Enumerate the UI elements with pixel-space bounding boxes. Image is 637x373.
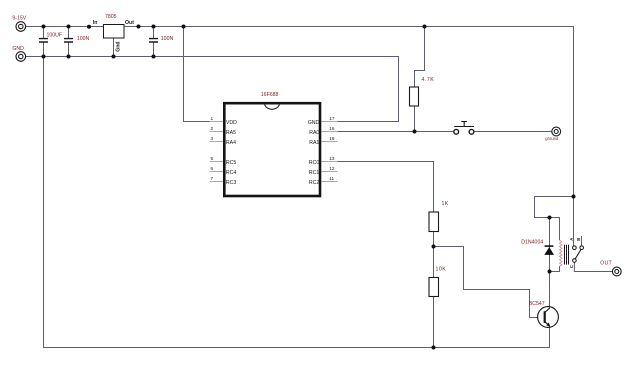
svg-text:10K: 10K	[436, 267, 447, 273]
svg-text:5: 5	[211, 156, 214, 161]
svg-text:2: 2	[211, 126, 214, 131]
svg-text:A: A	[569, 238, 574, 241]
svg-text:C: C	[569, 265, 574, 268]
svg-text:RA1: RA1	[309, 140, 319, 146]
svg-text:16F688: 16F688	[261, 92, 279, 98]
svg-text:17: 17	[329, 116, 335, 121]
svg-text:1K: 1K	[442, 201, 449, 207]
svg-text:D1N4004: D1N4004	[521, 240, 543, 246]
svg-text:15: 15	[329, 136, 335, 141]
svg-text:1: 1	[211, 116, 214, 121]
svg-text:RC3: RC3	[226, 180, 236, 186]
svg-text:16: 16	[329, 126, 335, 131]
svg-text:RC2: RC2	[309, 180, 319, 186]
svg-text:6: 6	[211, 166, 214, 171]
svg-text:4.7K: 4.7K	[422, 77, 435, 83]
svg-text:RA4: RA4	[226, 140, 236, 146]
svg-text:9-15V: 9-15V	[12, 15, 26, 21]
svg-text:BC547: BC547	[529, 301, 545, 307]
svg-text:RC5: RC5	[226, 160, 236, 166]
svg-text:GND: GND	[308, 120, 320, 126]
svg-text:100N: 100N	[77, 36, 90, 42]
svg-text:100N: 100N	[161, 36, 174, 42]
svg-text:RA5: RA5	[226, 130, 236, 136]
svg-text:7: 7	[211, 176, 214, 181]
svg-text:3: 3	[211, 136, 214, 141]
svg-text:100UF: 100UF	[47, 33, 63, 39]
svg-text:OUT: OUT	[600, 261, 612, 267]
svg-text:Out: Out	[125, 20, 134, 26]
svg-text:In: In	[93, 20, 98, 26]
svg-text:ground: ground	[545, 136, 559, 141]
svg-text:GND: GND	[12, 46, 24, 52]
svg-text:RC0: RC0	[309, 160, 319, 166]
svg-text:13: 13	[329, 156, 335, 161]
svg-text:RA0: RA0	[309, 130, 319, 136]
svg-text:11: 11	[329, 176, 334, 181]
svg-text:7805: 7805	[105, 14, 117, 20]
svg-text:B: B	[576, 238, 581, 241]
svg-text:RC4: RC4	[226, 170, 236, 176]
svg-text:RC1: RC1	[309, 170, 319, 176]
svg-text:Gnd: Gnd	[115, 41, 121, 51]
svg-text:12: 12	[329, 166, 335, 171]
svg-text:VDD: VDD	[226, 120, 237, 126]
